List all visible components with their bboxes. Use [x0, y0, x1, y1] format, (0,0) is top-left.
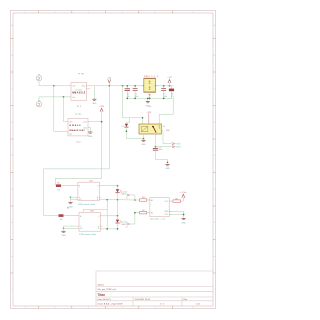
wire V2 to IC1 -Vin: [39, 97, 69, 102]
svg-text:LED1: LED1: [122, 194, 126, 196]
wire gnd bus: [127, 97, 173, 99]
junction node L: [117, 228, 119, 230]
LED LED2: [116, 216, 128, 229]
junction dots rail: [122, 85, 124, 87]
supply +12V P4: [146, 107, 152, 124]
wire U3 gnd out rows: [169, 210, 183, 212]
svg-text:+Vout: +Vout: [82, 121, 87, 124]
svg-text:D1: D1: [122, 126, 124, 128]
capacitor C3: [162, 86, 168, 99]
svg-text:NMV 5-2.2: NMV 5-2.2: [144, 76, 159, 78]
svg-text:GND: GND: [165, 168, 170, 170]
resistor R5: [140, 210, 150, 214]
wire V-link U1 emitter to U2 bottom: [106, 200, 108, 229]
svg-text:OK1: OK1: [89, 180, 93, 182]
wire +5V drop to opto2 row: [44, 86, 110, 216]
wire V1 to IC1 +Vin: [39, 81, 69, 86]
svg-text:GND: GND: [88, 136, 93, 138]
junction node A: [53, 85, 55, 87]
voltage source V1: [36, 75, 41, 81]
wire U2 emitter row: [102, 228, 117, 230]
svg-text:PC814 infrared - diode: PC814 infrared - diode: [78, 203, 95, 206]
ground symbol GND8: [181, 219, 186, 225]
pin header P-J4: [126, 223, 130, 229]
svg-text:R3: R3: [67, 207, 69, 209]
svg-text:+Vin: +Vin: [72, 86, 76, 88]
svg-text:100n: 100n: [163, 96, 167, 98]
svg-text:Titan: Titan: [98, 293, 106, 297]
resistor R2: [56, 183, 78, 192]
svg-text:R2: R2: [57, 183, 59, 185]
svg-text:DC-DC: DC-DC: [76, 89, 82, 91]
svg-text:11.04.2021 19:24: 11.04.2021 19:24: [135, 299, 151, 301]
resistor R1: [169, 86, 174, 99]
svg-text:10k: 10k: [57, 190, 60, 192]
DC converter IC2: [66, 118, 89, 135]
junction node O: [183, 214, 185, 216]
svg-text:R6: R6: [175, 199, 177, 201]
svg-text:-Vout: -Vout: [83, 126, 88, 129]
svg-text:GND: GND: [92, 103, 97, 105]
svg-text:REL1: REL1: [177, 144, 181, 146]
svg-text:PC814 infrared - diode: PC814 infrared - diode: [79, 233, 96, 236]
wire IC2 +Vout to +12V rail: [90, 121, 102, 123]
svg-text:NMA05: NMA05: [70, 124, 82, 127]
junction node M: [134, 199, 136, 201]
optocoupler U2: [77, 211, 102, 236]
TITLE BLOCK: [96, 271, 213, 306]
ground symbol GND1: [92, 86, 97, 105]
wire +5Vcc to U3: [181, 198, 184, 202]
svg-text:+12V: +12V: [99, 106, 105, 108]
wire U1 cathode pins to GND6: [71, 196, 77, 198]
LED LED1: [116, 186, 128, 200]
svg-text:Drawn B.S.A. - chips GmbH: Drawn B.S.A. - chips GmbH: [98, 302, 123, 305]
resistor R3: [56, 207, 79, 221]
svg-text:100n: 100n: [159, 149, 163, 151]
SCHEMATIC: [36, 74, 186, 237]
svg-text:1: 1: [143, 86, 144, 88]
wire LED column middle: [117, 200, 119, 216]
svg-text:J2: J2: [126, 227, 128, 229]
wire node B to IC2 +Vin: [64, 97, 67, 122]
ground symbol GND5: [165, 162, 170, 171]
svg-text:+Vout: +Vout: [81, 85, 86, 88]
wire U2 collector row: [102, 215, 117, 217]
svg-text:GND: GND: [68, 206, 73, 208]
pin header P-J1: [172, 143, 180, 146]
svg-text:-Vin: -Vin: [72, 97, 75, 99]
svg-text:TP TP2: TP TP2: [75, 114, 83, 116]
ground symbol GND6: [68, 196, 73, 208]
supply +5Vcc arrow P5: [180, 192, 187, 197]
junction node J: [117, 199, 119, 201]
DC converter IC1: [69, 83, 90, 101]
pin header P-J3: [126, 194, 130, 200]
junction dot GND3 tap: [147, 98, 149, 100]
ground symbol GND3: [146, 98, 151, 107]
svg-text:GND: GND: [61, 235, 66, 237]
ground symbol GND4: [141, 138, 146, 146]
svg-text:TR1: TR1: [148, 94, 151, 96]
svg-text:-Vin: -Vin: [69, 134, 72, 136]
optocoupler U1: [76, 180, 101, 206]
junction node N: [134, 212, 136, 214]
relay K1: [139, 124, 170, 134]
diode D1 flyback loop: [122, 118, 144, 139]
junction node J2d: [106, 199, 108, 201]
svg-text:File: gen_PCB2_rel.s: File: gen_PCB2_rel.s: [98, 289, 117, 291]
wire J4 to U3 input 2: [130, 213, 140, 224]
optocoupler U3: [148, 198, 171, 221]
svg-text:LED2: LED2: [122, 224, 126, 226]
wire J3 to U3 input 1: [130, 195, 140, 200]
wire U2 top rail: [83, 210, 107, 213]
svg-text:A1: A1: [151, 199, 153, 202]
supply +5V arrow P3: [167, 77, 172, 86]
svg-text:Date: 04.05.21: Date: 04.05.21: [98, 298, 112, 301]
svg-text:10u: 10u: [127, 96, 130, 98]
svg-text:A2: A2: [151, 211, 153, 214]
svg-text:Sheet 1: Sheet 1: [98, 283, 106, 286]
svg-text:K1: K1: [163, 126, 165, 128]
capacitor C2: [133, 86, 139, 99]
capacitor C4: [153, 134, 162, 151]
svg-text:NMA0512: NMA0512: [72, 91, 86, 94]
wire relay switch to pin J1: [161, 131, 172, 144]
wire +5V tap to relay coil: [123, 86, 143, 124]
resistor R4: [140, 197, 150, 201]
junction node G: [155, 146, 157, 148]
junction node I: [117, 185, 119, 187]
junction node D: [101, 121, 103, 123]
svg-text:TP TP1: TP TP1: [78, 74, 86, 76]
wire row1 to R4: [118, 199, 135, 201]
capacitor C1: [125, 86, 130, 99]
voltage source V2: [36, 101, 41, 107]
junction node F: [108, 85, 110, 87]
svg-text:GND: GND: [181, 222, 186, 224]
junction node G2: [142, 117, 144, 119]
junction dots rail right: [163, 85, 165, 87]
supply +5V arrow P2: [107, 78, 111, 86]
wire +12V net: IC2 out down to opto1 row: [55, 112, 101, 186]
+5V rail wire: [87, 85, 142, 87]
svg-text:Rev:: Rev:: [184, 299, 189, 301]
junction node L2: [106, 228, 108, 230]
junction node K: [117, 215, 119, 217]
supply +12V arrow P1: [99, 106, 105, 112]
resistor R6: [169, 199, 180, 203]
svg-text:+ 5V: + 5V: [167, 77, 172, 79]
svg-text:J1: J1: [126, 198, 128, 200]
wire bus return to relay common: [159, 98, 173, 124]
svg-text:100n: 100n: [135, 96, 139, 98]
junction dots bus: [126, 98, 128, 100]
wire U1 collector row: [101, 185, 118, 187]
ground symbol GND2: [88, 128, 93, 138]
svg-text:10k: 10k: [60, 219, 63, 221]
svg-text:OK2: OK2: [90, 211, 94, 213]
svg-text:+Vin: +Vin: [69, 122, 73, 124]
svg-text:Opto colorle + + 1/4: Opto colorle + + 1/4: [150, 217, 165, 220]
wire node A to IC2 -Vin: [54, 86, 67, 132]
svg-text:2: 2: [154, 86, 155, 88]
ground symbol GND7: [61, 228, 66, 237]
svg-text:GND: GND: [141, 144, 146, 146]
wire U1 emitter row: [101, 199, 118, 201]
wire C4 to ground: [156, 151, 168, 163]
transformer TR1: [142, 76, 159, 98]
wire U2 cathode pins to GND7: [64, 227, 78, 229]
pin header P-J2: [172, 146, 180, 149]
junction node B: [63, 96, 65, 98]
wire coil node to pin J2: [156, 146, 173, 148]
svg-text:NMA0512SC: NMA0512SC: [70, 129, 86, 132]
svg-text:REL2: REL2: [177, 147, 181, 149]
svg-text:470: 470: [171, 96, 174, 98]
svg-text:OUT: OUT: [165, 214, 169, 216]
